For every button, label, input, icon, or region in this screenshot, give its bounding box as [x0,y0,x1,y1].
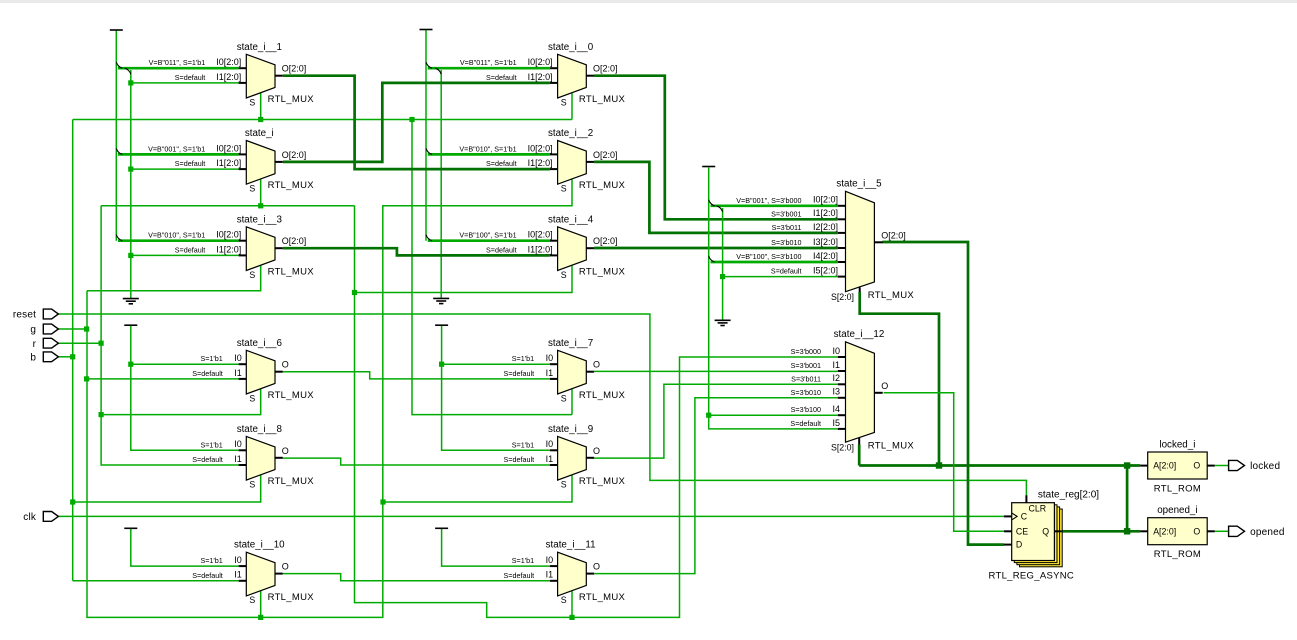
svg-text:V=B"011", S=1'b1: V=B"011", S=1'b1 [460,58,517,67]
svg-text:I0: I0 [234,555,242,565]
mux state_i__4 (RTL_MUX) [459,214,625,279]
wire const1 rail col2 rows4-5 [442,326,550,450]
wire O of state_i__2 to I2 of state_i__5 [594,162,838,233]
svg-text:RTL_MUX: RTL_MUX [579,476,626,487]
constant-1 symbol col2 row6 [435,527,448,529]
wire const1 rail col1 rows4-5 [131,326,239,450]
svg-text:locked: locked [1250,461,1280,472]
svg-text:S=1'b1: S=1'b1 [200,440,222,449]
svg-text:O[2:0]: O[2:0] [282,150,307,160]
wire const B"011" to I0 of state_i__1 [118,67,239,70]
svg-text:I3: I3 [832,387,840,397]
wire I4 of state_i__12 [709,414,838,416]
svg-text:O[2:0]: O[2:0] [282,64,307,74]
ground symbol state_i__5 [715,320,731,325]
ground symbol col2 [433,298,449,303]
svg-text:S=3'b010: S=3'b010 [791,388,821,397]
svg-text:state_i__7: state_i__7 [548,338,593,349]
svg-text:state_i__6: state_i__6 [237,338,283,349]
svg-text:O: O [593,446,600,456]
junction dots Q bus [936,462,942,468]
svg-text:opened: opened [1250,527,1285,538]
junction dots r net [99,341,104,346]
wire locked_i O to locked port [1215,465,1229,467]
input port r [43,338,58,348]
svg-text:state_i__12: state_i__12 [834,329,885,340]
input port clk [43,512,58,522]
wire r net: vertical rail left [101,206,239,465]
svg-text:RTL_MUX: RTL_MUX [868,290,915,301]
wire opened_i O to opened port [1215,530,1229,532]
svg-text:I4[2:0]: I4[2:0] [813,251,838,261]
svg-text:S=1'b1: S=1'b1 [512,556,534,565]
mux state_i__6 (RTL_MUX) [192,338,314,404]
svg-text:RTL_MUX: RTL_MUX [579,267,626,278]
wire const1 rail col2 row6 [442,529,550,566]
wire b net: drop to S of state_i__7 [412,120,572,415]
wire clk net to C of state_reg [58,515,1004,517]
wire b net: left vertical rail [72,120,74,581]
svg-text:I4: I4 [832,404,840,414]
svg-text:I1: I1 [234,368,242,378]
wire r net: S stub of state_i__11 [571,591,573,618]
svg-text:O: O [282,446,289,456]
wire gnd rail of state_i__5 [722,208,724,320]
svg-text:CLR: CLR [1029,504,1047,514]
constant-1 symbol col2 top [420,29,433,31]
svg-text:S=1'b1: S=1'b1 [512,354,534,363]
wire O of state_i__11 to I3 of state_i__12 [594,398,838,574]
svg-text:S=default: S=default [486,159,517,168]
wire b net: I1 of state_i__10 [73,580,239,582]
wire g net: vertical rail [87,179,572,617]
mux state_i__10 (RTL_MUX) [192,540,314,606]
wire r net: S wire of state_i row2 [101,205,354,207]
svg-text:state_i__11: state_i__11 [546,540,596,551]
svg-text:RTL_MUX: RTL_MUX [268,592,315,603]
svg-text:I1[2:0]: I1[2:0] [528,158,553,168]
wire O of state_i__0 to I1 of state_i__5 [594,76,838,220]
svg-text:S=default: S=default [192,369,223,378]
wire g port to rail [58,328,86,330]
mux state_i (RTL_MUX) [148,128,314,194]
input port reset [43,309,58,319]
svg-text:S=default: S=default [175,73,206,82]
wire const1 to I0 of state_i__7 [442,363,550,365]
svg-text:O: O [282,562,289,572]
constant-1 symbol col1 rows4-5 [124,324,137,326]
svg-text:I1: I1 [546,570,554,580]
svg-text:S: S [561,479,567,489]
wire O of state_i__5 to D of state_reg [882,242,1004,545]
svg-text:I1[2:0]: I1[2:0] [216,72,241,82]
svg-text:O[2:0]: O[2:0] [881,230,906,240]
svg-text:S=default: S=default [486,245,517,254]
wire const B"010" to I0 of state_i__3 [118,239,239,242]
svg-text:state_i__0: state_i__0 [548,42,594,53]
wire g net: S wire of state_i__3 [87,265,261,290]
svg-text:I0[2:0]: I0[2:0] [813,195,838,205]
svg-text:S[2:0]: S[2:0] [831,443,854,453]
svg-text:I2: I2 [832,373,840,383]
wire reset net to CLR of state_reg [58,314,1026,495]
svg-text:I0[2:0]: I0[2:0] [528,57,553,67]
wire gnd to I1 of state_i__3 [131,254,239,256]
svg-text:S=default: S=default [504,455,535,464]
wire r net: S wire of state_i__4 [355,265,573,292]
svg-text:RTL_MUX: RTL_MUX [268,94,315,105]
svg-text:RTL_MUX: RTL_MUX [579,390,626,401]
svg-text:O: O [593,562,600,572]
svg-text:RTL_MUX: RTL_MUX [579,592,626,603]
mux state_i__7 (RTL_MUX) [504,338,626,404]
svg-text:S=3'b010: S=3'b010 [771,238,801,247]
output port opened [1229,526,1245,536]
svg-text:O[2:0]: O[2:0] [593,236,618,246]
svg-text:I1: I1 [832,360,840,370]
svg-text:S: S [561,97,567,107]
svg-text:RTL_MUX: RTL_MUX [579,180,626,191]
svg-text:V=B"100", S=3'b100: V=B"100", S=3'b100 [736,252,801,261]
svg-text:locked_i: locked_i [1159,439,1195,450]
svg-text:I1[2:0]: I1[2:0] [528,72,553,82]
svg-text:A[2:0]: A[2:0] [1153,526,1176,536]
svg-text:S=3'b001: S=3'b001 [791,361,821,370]
svg-text:r: r [33,339,37,350]
svg-text:RTL_REG_ASYNC: RTL_REG_ASYNC [989,570,1075,581]
wire const1 rail col1 rows1-3 [115,30,117,241]
svg-text:V=B"010", S=1'b1: V=B"010", S=1'b1 [148,231,205,240]
wire gnd to I1 of state_i [131,168,239,170]
svg-text:V=B"011", S=1'b1: V=B"011", S=1'b1 [149,58,206,67]
svg-text:state_i__10: state_i__10 [234,540,285,551]
wire b net: S stub of state_i__0 [571,93,573,120]
wire const1 rail col2 rows1-3 [425,30,427,241]
junction dots gnd rail col1 [128,80,133,85]
wire b net: S stub of state_i__1 [260,93,262,120]
svg-text:state_i__4: state_i__4 [548,214,594,225]
svg-text:O: O [1193,461,1200,471]
svg-text:S=default: S=default [175,159,206,168]
svg-text:S=default: S=default [192,571,223,580]
svg-text:CE: CE [1016,526,1028,536]
svg-text:O: O [881,381,888,391]
mux state_i__5 (RTL_MUX 6-input) [736,179,914,303]
svg-text:S: S [561,393,567,403]
wire gnd to I5 of state_i__5 [723,276,838,278]
svg-text:RTL_MUX: RTL_MUX [579,94,626,105]
wire const B"010" to I0 of state_i__2 [428,153,550,156]
svg-text:I2[2:0]: I2[2:0] [813,222,838,232]
svg-text:S: S [561,184,567,194]
svg-text:I0: I0 [546,439,554,449]
svg-text:I1: I1 [546,454,554,464]
svg-text:opened_i: opened_i [1157,505,1197,516]
svg-text:S=3'b100: S=3'b100 [791,405,821,414]
svg-text:I1[2:0]: I1[2:0] [813,208,838,218]
wire gnd to I1 of state_i__1 [131,82,239,84]
canvas top border [0,0,1297,3]
svg-text:state_i__5: state_i__5 [836,179,882,190]
wire O of state_i__12 to CE of state_reg [884,393,1004,532]
svg-text:RTL_MUX: RTL_MUX [268,390,315,401]
svg-text:RTL_MUX: RTL_MUX [268,476,315,487]
svg-text:I0: I0 [234,353,242,363]
svg-text:C: C [1021,512,1028,522]
wire O of state_i__9 to I2 of state_i__12 [594,384,838,458]
svg-text:S: S [249,97,255,107]
mux state_i__1 (RTL_MUX) [149,42,315,108]
wire O of state_i__3 to I1 of state_i__4 [283,248,550,255]
svg-text:I5: I5 [832,418,840,428]
constant-1 symbol state_i__5 [702,166,715,168]
svg-text:S=3'b011: S=3'b011 [791,374,821,383]
svg-text:RTL_ROM: RTL_ROM [1154,549,1201,560]
svg-text:Q: Q [1042,526,1049,536]
output port locked [1229,460,1245,470]
svg-text:I0: I0 [832,346,840,356]
wire r net: S wire of state_i__6 [101,389,261,415]
wire O of state_i__10 to I1 of state_i__11 [283,574,550,581]
svg-text:I0[2:0]: I0[2:0] [216,230,241,240]
svg-text:S=default: S=default [771,267,802,276]
svg-text:S=1'b1: S=1'b1 [200,556,222,565]
svg-text:I0: I0 [546,555,554,565]
svg-text:S: S [249,479,255,489]
svg-text:I1: I1 [234,570,242,580]
svg-text:state_i: state_i [245,128,274,139]
mux state_i__12 (RTL_MUX 6-input) [790,329,914,453]
svg-text:O: O [1193,526,1200,536]
wire Q bus from state_reg to opened_i [1062,530,1141,533]
wire O of state_i__8 to I1 of state_i__9 [283,458,550,465]
svg-text:S=default: S=default [175,245,206,254]
svg-text:I1[2:0]: I1[2:0] [216,244,241,254]
svg-text:I1: I1 [546,368,554,378]
junction dots b net [70,354,75,359]
svg-text:S=3'b011: S=3'b011 [772,223,802,232]
wire O of state_i__4 to I3 of state_i__5 [594,247,838,250]
wire Q bus: S stub of state_i__12 [858,438,860,445]
svg-text:I0[2:0]: I0[2:0] [528,230,553,240]
wire r port to rail [58,342,101,344]
svg-text:I5[2:0]: I5[2:0] [813,266,838,276]
svg-text:RTL_ROM: RTL_ROM [1154,484,1201,495]
svg-text:S=1'b1: S=1'b1 [512,440,534,449]
svg-text:I0: I0 [546,353,554,363]
input port g [43,324,58,334]
register state_reg[2:0] (RTL_REG_ASYNC) [989,489,1100,581]
constant-1 symbol col2 rows4-5 [435,324,448,326]
svg-text:O: O [593,360,600,370]
constant-1 symbol col1 top [110,29,123,31]
svg-text:I1: I1 [234,454,242,464]
svg-text:S=1'b1: S=1'b1 [200,354,222,363]
wire b net: row1 S rail [73,119,572,121]
svg-text:I1[2:0]: I1[2:0] [528,244,553,254]
svg-text:I0: I0 [234,439,242,449]
svg-text:O[2:0]: O[2:0] [282,236,307,246]
wire Q bus: S stub of state_i__5 [859,288,861,293]
svg-text:state_i__2: state_i__2 [548,128,593,139]
wire r net: mid vertical rail [355,206,838,618]
wire const1 rail col1 row6 [131,529,239,566]
junction dots g net [84,326,89,331]
wire Q bus horizontal to locked_i [859,464,1140,467]
svg-text:RTL_MUX: RTL_MUX [268,267,315,278]
svg-text:S: S [561,595,567,605]
wire gnd rail col1 rows1-3 [130,70,132,299]
mux state_i__9 (RTL_MUX) [504,424,626,490]
mux state_i__8 (RTL_MUX) [192,424,314,490]
wire b net: S stub of state_i__7 [571,389,573,415]
wire O of state_i__7 to I1 of state_i__12 [594,370,838,372]
bus tap arcs col1 [116,62,122,68]
wire const B"001" to I0 of state_i [118,153,239,156]
wire const B"100" to I4 of state_i__5 [711,261,838,264]
wire b port to rail [58,356,72,358]
wire const B"100" to I0 of state_i__4 [428,239,550,242]
junction dots const rails [128,362,133,367]
svg-text:I1[2:0]: I1[2:0] [216,158,241,168]
wire const B"011" to I0 of state_i__0 [428,67,550,70]
mux state_i__2 (RTL_MUX) [459,128,625,194]
svg-text:A[2:0]: A[2:0] [1153,461,1176,471]
svg-text:state_i__1: state_i__1 [237,42,282,53]
input port b [43,352,58,362]
constant-1 symbol col1 row6 [124,527,137,529]
svg-text:D: D [1016,540,1022,550]
wire O of state_i__6 to I1 of state_i__7 [283,372,550,379]
svg-text:state_i__8: state_i__8 [237,424,283,435]
svg-text:I0[2:0]: I0[2:0] [216,143,241,153]
svg-text:S: S [249,595,255,605]
wire Q bus branch down [1126,466,1129,532]
svg-text:state_reg[2:0]: state_reg[2:0] [1038,489,1099,500]
wire g net: S wire of state_i__9 [383,475,572,502]
svg-text:S: S [249,393,255,403]
wire g net: S stub of state_i__10 [260,591,262,618]
svg-text:clk: clk [23,512,37,523]
svg-text:O[2:0]: O[2:0] [593,64,618,74]
wire g net: I1 of state_i__6 [87,378,239,380]
wire const1 to I0 of state_i__6 [131,363,239,365]
svg-text:b: b [30,352,36,363]
svg-text:V=B"100", S=1'b1: V=B"100", S=1'b1 [459,231,516,240]
wire const B"001" to I0 of state_i__5 [711,204,838,207]
svg-text:S=default: S=default [192,455,223,464]
svg-text:S: S [249,184,255,194]
svg-text:S: S [561,270,567,280]
svg-text:reset: reset [13,310,36,321]
svg-text:RTL_MUX: RTL_MUX [868,441,915,452]
mux state_i__3 (RTL_MUX) [148,214,314,279]
wire b net: S wire of state_i__8 [73,475,261,502]
svg-text:S=default: S=default [504,571,535,580]
svg-text:S=default: S=default [486,73,517,82]
wire const rail of state_i__5 [709,168,838,429]
svg-text:I3[2:0]: I3[2:0] [813,237,838,247]
svg-text:I0[2:0]: I0[2:0] [528,143,553,153]
ROM locked_i (RTL_ROM) [1140,439,1215,494]
svg-text:I0[2:0]: I0[2:0] [216,57,241,67]
svg-text:RTL_MUX: RTL_MUX [268,180,315,191]
svg-text:S=default: S=default [504,369,535,378]
svg-text:V=B"001", S=3'b000: V=B"001", S=3'b000 [736,196,801,205]
bus tap arcs col2 [426,62,432,68]
svg-text:S[2:0]: S[2:0] [831,292,854,302]
svg-text:V=B"001", S=1'b1: V=B"001", S=1'b1 [148,144,205,153]
svg-text:V=B"010", S=1'b1: V=B"010", S=1'b1 [459,144,516,153]
mux state_i__11 (RTL_MUX) [504,540,626,606]
svg-text:O: O [282,360,289,370]
wire gnd rail col2 rows1-3 [440,70,442,298]
wire O of state_i to I1 of state_i__0 [283,83,550,162]
svg-text:O[2:0]: O[2:0] [593,150,618,160]
wire O of state_i__1 to I1 of state_i__2 [283,76,550,169]
svg-text:state_i__9: state_i__9 [548,424,593,435]
svg-text:g: g [30,325,36,336]
mux state_i__0 (RTL_MUX) [460,42,626,108]
svg-text:state_i__3: state_i__3 [237,214,283,225]
svg-text:S: S [249,270,255,280]
ROM opened_i (RTL_ROM) [1140,505,1215,560]
bus tap arcs state_i__5 [709,200,715,206]
svg-text:S=default: S=default [790,419,821,428]
wire r net: S stub of state_i row2 [260,179,262,206]
ground symbol col1 [123,299,139,304]
svg-text:S=3'b001: S=3'b001 [771,209,801,218]
svg-text:S=3'b000: S=3'b000 [791,347,821,356]
